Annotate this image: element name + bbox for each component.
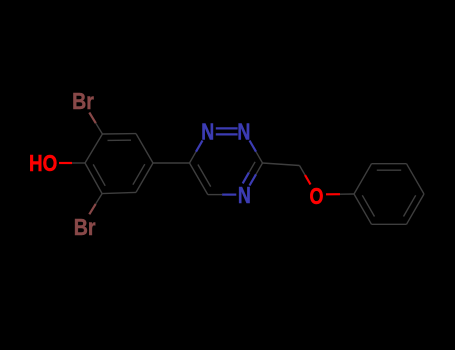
svg-text:HO: HO bbox=[29, 151, 57, 176]
svg-text:N: N bbox=[238, 183, 251, 209]
svg-text:O: O bbox=[310, 184, 324, 210]
svg-text:Br: Br bbox=[74, 214, 96, 240]
svg-text:N: N bbox=[201, 119, 214, 145]
svg-text:N: N bbox=[237, 119, 250, 145]
svg-text:Br: Br bbox=[72, 88, 94, 114]
